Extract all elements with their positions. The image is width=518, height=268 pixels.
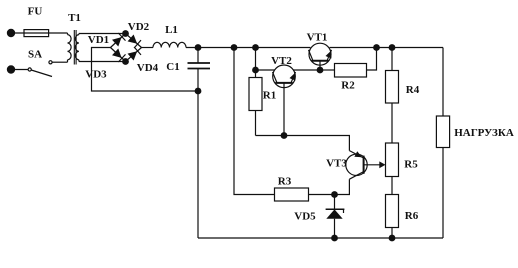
resistor R2 xyxy=(335,64,367,92)
wire load to bottom rail xyxy=(442,148,444,239)
wire top rail right xyxy=(330,47,443,49)
svg-text:FU: FU xyxy=(28,6,43,18)
wire R1 bottom xyxy=(255,111,257,136)
wire base bus xyxy=(256,136,350,151)
junction R1 top xyxy=(252,67,259,74)
resistor R1 xyxy=(249,78,276,111)
wire bottom rail xyxy=(198,237,443,239)
wire R4 to R5 xyxy=(391,103,393,143)
junction bridge bottom xyxy=(122,58,129,65)
wire rail to R3 xyxy=(234,48,275,195)
wire R5 to R6 xyxy=(391,177,393,195)
junction R1 branch xyxy=(252,44,259,51)
diode VD3 xyxy=(85,48,125,81)
junction R2 rail xyxy=(373,44,380,51)
capacitor C1 xyxy=(166,48,210,92)
wire R6 to rail xyxy=(391,228,393,239)
load box xyxy=(436,116,513,148)
svg-text:R1: R1 xyxy=(263,90,276,102)
svg-text:VT2: VT2 xyxy=(271,55,292,67)
wire R3 to VD5 node xyxy=(309,194,335,196)
svg-text:VD2: VD2 xyxy=(128,21,150,33)
wire node to VT2 xyxy=(256,69,275,71)
wire input to fuse xyxy=(11,32,68,34)
wire VT1 base to R2 xyxy=(320,69,335,71)
transistor VT2 xyxy=(271,55,295,88)
wire VT1 base xyxy=(319,61,321,70)
wire secondary top xyxy=(79,33,126,35)
diode VD4 xyxy=(126,47,159,74)
wire bridge minus xyxy=(92,48,199,92)
wire VT2 emitter to VT1 base xyxy=(293,69,320,71)
transistor VT1 xyxy=(307,32,332,66)
resistor R4 xyxy=(386,71,420,104)
wire secondary bottom xyxy=(79,61,126,63)
wire R1 top lead xyxy=(255,70,257,78)
resistor R3 xyxy=(275,176,309,202)
wire switch to transformer xyxy=(52,61,67,63)
fuse FU xyxy=(24,6,49,37)
transformer T1 xyxy=(68,12,81,65)
wire top rail xyxy=(186,47,310,49)
resistor R6 xyxy=(386,195,419,228)
junction VD5 top xyxy=(331,191,338,198)
junction VT2 base xyxy=(281,132,288,139)
junction bridge top xyxy=(122,30,129,37)
svg-text:SA: SA xyxy=(28,49,42,61)
svg-text:R4: R4 xyxy=(406,84,420,96)
junction R3 branch xyxy=(231,44,238,51)
wire VT3 collector xyxy=(335,179,350,194)
svg-text:VT1: VT1 xyxy=(307,32,328,44)
zener diode VD5 xyxy=(294,195,344,239)
junction VT1 base xyxy=(317,67,324,74)
svg-text:R5: R5 xyxy=(404,159,418,171)
svg-text:R2: R2 xyxy=(341,80,355,92)
inductor L1 xyxy=(153,24,186,48)
junction R4 branch xyxy=(389,44,396,51)
wire R2 to rail xyxy=(367,48,377,71)
terminal bottom-left xyxy=(7,65,15,73)
svg-text:R3: R3 xyxy=(278,176,292,188)
wire rail to load xyxy=(442,48,444,117)
svg-text:R6: R6 xyxy=(405,210,419,222)
terminal top-left xyxy=(7,29,15,37)
junction VD5 bottom xyxy=(331,235,338,242)
diode VD1 xyxy=(88,33,126,47)
wire rail to R4 xyxy=(391,48,393,71)
resistor R5 potentiometer xyxy=(386,143,419,177)
wire minus vertical xyxy=(197,91,199,238)
junction R6 bottom xyxy=(389,235,396,242)
diode VD2 xyxy=(126,21,150,48)
wire input to switch xyxy=(11,69,29,71)
svg-text:C1: C1 xyxy=(166,61,179,73)
svg-text:VD3: VD3 xyxy=(85,69,107,81)
svg-text:НАГРУЗКА: НАГРУЗКА xyxy=(454,127,514,139)
svg-text:VD4: VD4 xyxy=(137,62,159,74)
wire rail to R1 node xyxy=(255,48,257,71)
switch SA xyxy=(28,49,52,77)
svg-text:VT3: VT3 xyxy=(326,158,347,170)
junction C1 top xyxy=(195,44,202,51)
svg-text:VD5: VD5 xyxy=(294,211,316,223)
junction C1 bottom xyxy=(195,88,202,95)
transistor VT3 xyxy=(326,151,367,180)
wire VT2 base xyxy=(283,83,285,136)
wire bridge to L1 xyxy=(142,47,154,49)
wire VT3 base wiper arrow xyxy=(364,161,386,168)
svg-text:T1: T1 xyxy=(68,12,81,24)
svg-text:VD1: VD1 xyxy=(88,34,109,46)
svg-text:L1: L1 xyxy=(165,24,178,36)
